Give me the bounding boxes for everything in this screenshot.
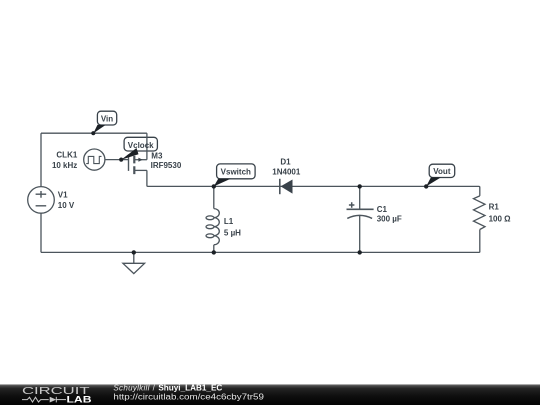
svg-text:1N4001: 1N4001 bbox=[272, 167, 301, 176]
svg-text:V1: V1 bbox=[58, 191, 68, 200]
svg-text:5 µH: 5 µH bbox=[224, 228, 241, 237]
svg-text:Vin: Vin bbox=[101, 115, 113, 124]
svg-text:10 kHz: 10 kHz bbox=[52, 161, 77, 170]
svg-text:100 Ω: 100 Ω bbox=[489, 214, 512, 223]
svg-text:L1: L1 bbox=[224, 217, 234, 226]
svg-text:D1: D1 bbox=[280, 158, 291, 167]
svg-text:R1: R1 bbox=[489, 203, 500, 212]
svg-text:Vclock: Vclock bbox=[128, 141, 154, 150]
svg-text:IRF9530: IRF9530 bbox=[151, 161, 182, 170]
svg-text:Vout: Vout bbox=[433, 167, 451, 176]
svg-text:300 µF: 300 µF bbox=[377, 215, 402, 224]
svg-text:Schuylkill / Shuyi_LAB1_EC: Schuylkill / Shuyi_LAB1_EC bbox=[113, 383, 222, 392]
svg-text:M3: M3 bbox=[151, 152, 163, 161]
svg-text:C1: C1 bbox=[377, 205, 388, 214]
svg-text:10 V: 10 V bbox=[58, 201, 75, 210]
svg-text:LAB: LAB bbox=[67, 394, 93, 404]
svg-text:http://circuitlab.com/ce4c6cby: http://circuitlab.com/ce4c6cby7tr59 bbox=[113, 392, 264, 401]
svg-text:CLK1: CLK1 bbox=[56, 151, 77, 160]
svg-text:Vswitch: Vswitch bbox=[221, 168, 251, 177]
